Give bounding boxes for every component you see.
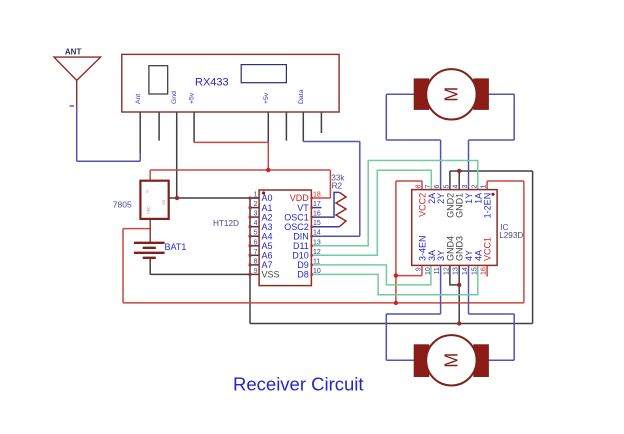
- svg-text:1-2EN: 1-2EN: [483, 193, 493, 219]
- svg-text:Gnd: Gnd: [171, 91, 178, 104]
- svg-text:Receiver Circuit: Receiver Circuit: [233, 374, 364, 395]
- svg-text:VI: VI: [146, 190, 150, 193]
- svg-text:1: 1: [481, 185, 488, 189]
- svg-text:9: 9: [254, 268, 258, 275]
- svg-text:+5v: +5v: [263, 92, 270, 104]
- svg-text:15: 15: [313, 220, 321, 227]
- svg-text:D8: D8: [297, 270, 309, 280]
- svg-text:7805: 7805: [113, 199, 132, 209]
- svg-text:Data: Data: [298, 89, 305, 104]
- svg-text:VCC1: VCC1: [483, 237, 493, 261]
- svg-text:A4: A4: [262, 231, 273, 241]
- svg-text:6: 6: [434, 185, 441, 189]
- svg-text:R2: R2: [332, 182, 343, 191]
- svg-text:VO: VO: [162, 200, 166, 205]
- svg-text:A6: A6: [262, 251, 273, 261]
- svg-text:18: 18: [313, 192, 321, 199]
- svg-text:OSC1: OSC1: [284, 212, 309, 222]
- svg-text:3: 3: [462, 185, 469, 189]
- svg-text:15: 15: [471, 267, 478, 275]
- svg-text:10: 10: [313, 268, 321, 275]
- svg-text:13: 13: [453, 267, 460, 275]
- svg-text:OSC2: OSC2: [284, 222, 309, 232]
- svg-text:8: 8: [416, 185, 423, 189]
- svg-text:7: 7: [425, 185, 432, 189]
- svg-text:RX433: RX433: [195, 77, 229, 89]
- svg-text:DIN: DIN: [293, 231, 309, 241]
- svg-text:A3: A3: [262, 222, 273, 232]
- svg-text:11: 11: [434, 267, 441, 274]
- svg-text:M: M: [441, 87, 461, 102]
- svg-text:17: 17: [313, 201, 321, 208]
- svg-text:D9: D9: [297, 260, 309, 270]
- svg-text:VT: VT: [297, 203, 309, 213]
- svg-text:12: 12: [313, 249, 321, 256]
- svg-text:D11: D11: [293, 241, 309, 251]
- svg-text:4: 4: [254, 220, 258, 227]
- svg-text:+5v: +5v: [189, 92, 196, 104]
- svg-text:12: 12: [443, 267, 450, 275]
- svg-text:HT12D: HT12D: [213, 219, 239, 228]
- svg-text:7: 7: [254, 249, 258, 256]
- svg-text:5: 5: [254, 230, 258, 237]
- svg-text:2: 2: [254, 201, 258, 208]
- svg-text:Ant: Ant: [135, 94, 142, 104]
- svg-text:14: 14: [313, 230, 321, 237]
- svg-text:GND: GND: [147, 206, 151, 214]
- svg-text:A7: A7: [262, 260, 273, 270]
- svg-text:6: 6: [254, 239, 258, 246]
- svg-text:1: 1: [254, 192, 258, 199]
- svg-text:ANT: ANT: [65, 48, 82, 57]
- svg-text:VSS: VSS: [262, 270, 280, 280]
- svg-text:9: 9: [416, 267, 423, 271]
- svg-text:13: 13: [313, 239, 321, 246]
- svg-text:2: 2: [471, 185, 478, 189]
- svg-text:8: 8: [254, 258, 258, 265]
- svg-text:10: 10: [425, 267, 432, 275]
- svg-text:4: 4: [453, 185, 460, 189]
- svg-text:VDD: VDD: [290, 193, 310, 203]
- svg-text:A0: A0: [262, 193, 273, 203]
- svg-text:A1: A1: [262, 203, 273, 213]
- svg-text:A5: A5: [262, 241, 273, 251]
- svg-text:16: 16: [481, 267, 488, 275]
- svg-text:D10: D10: [292, 251, 309, 261]
- svg-text:16: 16: [313, 211, 321, 218]
- svg-text:14: 14: [462, 267, 469, 275]
- svg-text:5: 5: [443, 185, 450, 189]
- svg-text:A2: A2: [262, 212, 273, 222]
- svg-text:M: M: [441, 353, 461, 368]
- svg-text:11: 11: [313, 258, 320, 265]
- svg-text:BAT1: BAT1: [165, 242, 187, 252]
- svg-text:3: 3: [254, 211, 258, 218]
- svg-text:L293D: L293D: [499, 231, 523, 240]
